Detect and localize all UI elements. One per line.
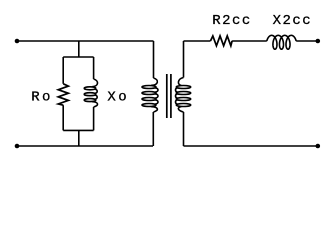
wire: Xo top lead xyxy=(93,57,95,79)
node: bottom-right terminal xyxy=(316,144,321,149)
wire: parallel-branch bottom stub xyxy=(78,130,80,146)
svg-text:X2cc: X2cc xyxy=(273,13,313,29)
wire: parallel box bottom xyxy=(63,129,93,131)
wire: secondary top lead xyxy=(183,41,185,78)
wire: Xo bottom lead xyxy=(93,107,95,130)
svg-text:R2cc: R2cc xyxy=(212,13,252,29)
wire: primary bottom lead xyxy=(152,112,154,146)
transformer core line 2 xyxy=(170,74,172,118)
node: bottom-left terminal xyxy=(15,144,20,149)
transformer core line 1 xyxy=(166,74,168,118)
inductor: transformer secondary winding xyxy=(176,78,191,113)
wire: bottom-left horizontal xyxy=(17,145,153,147)
resistor R2cc xyxy=(211,36,233,46)
node: top-right terminal xyxy=(316,39,321,44)
wire: parallel-branch top stub xyxy=(78,41,80,57)
inductor: transformer primary winding xyxy=(142,78,158,112)
wire: R2cc to X2cc xyxy=(232,40,267,42)
inductor X2cc xyxy=(267,35,296,49)
wire: bottom-right horizontal xyxy=(184,145,318,147)
resistor Ro xyxy=(58,84,68,105)
wire: Ro top lead xyxy=(62,57,64,84)
wire: parallel box top xyxy=(63,56,93,58)
svg-text:Ro: Ro xyxy=(31,89,53,105)
node: top-left terminal xyxy=(15,39,20,44)
wire: secondary bottom lead xyxy=(183,112,185,146)
wire: top-left horizontal xyxy=(17,40,154,42)
inductor Xo xyxy=(84,79,97,107)
wire: X2cc to top-right terminal xyxy=(296,40,318,42)
wire: Ro bottom lead xyxy=(62,105,64,130)
wire: primary top lead xyxy=(153,41,155,78)
svg-text:Xo: Xo xyxy=(107,89,129,105)
wire: secondary to R2cc xyxy=(184,40,211,42)
